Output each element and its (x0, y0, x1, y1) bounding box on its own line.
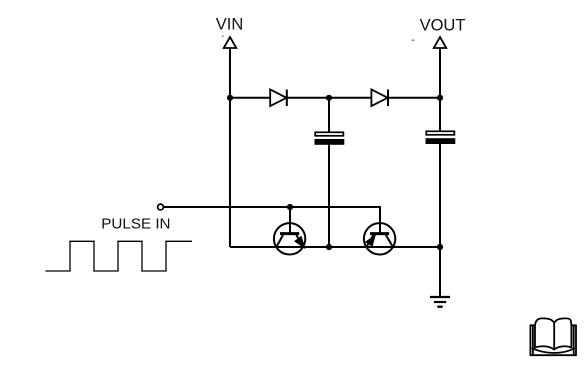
junction dot base Q1 (287, 204, 293, 210)
wire base Q1 vertical (289, 207, 291, 234)
wire bottom horizontal (230, 246, 440, 248)
junction dot middle/bottom wire (326, 244, 332, 250)
wire pulse horizontal (164, 206, 380, 208)
wire top horizontal (230, 97, 440, 99)
svg-text:VIN: VIN (216, 16, 244, 34)
junction dot VOUT/bottom wire (437, 244, 443, 250)
junction dot VOUT/top wire (437, 95, 443, 101)
diode D1 (270, 90, 287, 107)
diode D2 (371, 90, 388, 107)
ground (430, 297, 450, 307)
svg-text:VOUT: VOUT (420, 17, 466, 35)
wire VOUT vertical top (439, 48, 441, 133)
speck near VIN (222, 36, 224, 38)
wire base Q2 vertical (379, 206, 381, 234)
transistor Q2 (364, 223, 395, 254)
transistor Q1 (274, 223, 305, 254)
wire middle vertical bottom (328, 143, 330, 248)
terminal arrow VOUT (434, 37, 447, 48)
capacitor C2 (426, 131, 456, 144)
terminal arrow VIN (224, 37, 237, 48)
junction dot middle/top wire (326, 95, 332, 101)
wire VOUT vertical mid (439, 143, 441, 296)
speck near VOUT (412, 40, 415, 42)
junction dot VIN/top wire (227, 95, 233, 101)
wire VIN vertical (229, 48, 231, 247)
terminal PULSE IN (158, 204, 164, 210)
capacitor C1 (315, 132, 345, 145)
pulse waveform (46, 241, 193, 271)
svg-text:PULSE IN: PULSE IN (101, 216, 170, 233)
wire middle vertical top (328, 98, 330, 133)
book icon (530, 318, 576, 355)
